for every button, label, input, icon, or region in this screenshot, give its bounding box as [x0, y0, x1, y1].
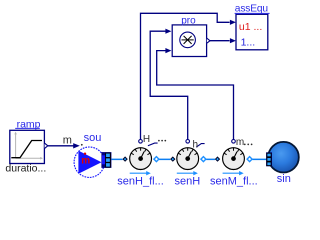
senH port_a [170, 156, 175, 161]
label H_flow [143, 134, 166, 146]
senH_flow flow arrow [130, 171, 151, 175]
label m_flow [236, 137, 253, 148]
block pro (product) [172, 25, 206, 57]
sensor senM_flow [223, 148, 245, 170]
svg-text:h: h [193, 140, 199, 151]
svg-text:m: m [63, 135, 72, 147]
senM_flow m_flow output port [232, 140, 236, 144]
svg-text:senH: senH [175, 176, 201, 188]
boundary sin [268, 142, 299, 173]
source sou [74, 147, 104, 177]
svg-text:senM_fl...: senM_fl... [210, 176, 258, 188]
label assEqu [235, 4, 270, 15]
senH port_b [201, 157, 206, 162]
label pro [181, 15, 196, 26]
svg-text:senH_fl...: senH_fl... [117, 176, 163, 188]
svg-text:H: H [143, 134, 150, 145]
wire ramp.y -> sou.m_flow_in [48, 143, 80, 148]
block ramp [10, 130, 45, 163]
pro.y output connector [207, 38, 210, 43]
fluid connection senM_flow -> sin [252, 158, 266, 160]
senH_flow port_a [122, 156, 127, 161]
svg-text:pro: pro [181, 15, 196, 26]
wire senM_flow.m_flow -> pro.u2 [157, 48, 234, 140]
label h_out [193, 140, 205, 151]
senH_flow port_b [154, 157, 159, 162]
fluid ports sou (multiport) [101, 152, 111, 168]
svg-text:m: m [81, 156, 90, 167]
fluid connection senH -> senM_flow [206, 158, 215, 160]
senM_flow port_b [247, 157, 252, 162]
fluid ports sin (multiport) [266, 152, 272, 166]
wire senH_flow.H_flow -> assEqu.u1 [141, 13, 236, 139]
wire pro.y -> assEqu.u2 [210, 38, 236, 43]
senH h_out output port [186, 140, 190, 144]
svg-text:1...: 1... [241, 37, 256, 49]
label sou [84, 132, 102, 144]
svg-text:sin: sin [277, 173, 291, 185]
fluid connection sou -> senH_flow [111, 158, 122, 160]
svg-text:m: m [236, 137, 244, 148]
svg-text:duratio...: duratio... [5, 163, 46, 175]
senM_flow flow arrow [223, 171, 244, 175]
senM_flow port_a [215, 156, 220, 161]
ramp.y output connector [45, 143, 48, 148]
senH_flow H_flow output port [139, 140, 143, 144]
label ramp [15, 118, 40, 130]
block assEqu [236, 14, 268, 50]
label m_... on wire [63, 135, 83, 147]
senH flow arrow [177, 171, 198, 175]
sensor senH [177, 148, 199, 170]
svg-text:u1 ...: u1 ... [239, 21, 262, 33]
wire senH.h_out -> pro.u1 [150, 29, 188, 140]
svg-text:sou: sou [84, 132, 102, 144]
sensor senH_flow [130, 148, 152, 170]
fluid connection senH_flow -> senH [159, 158, 170, 160]
